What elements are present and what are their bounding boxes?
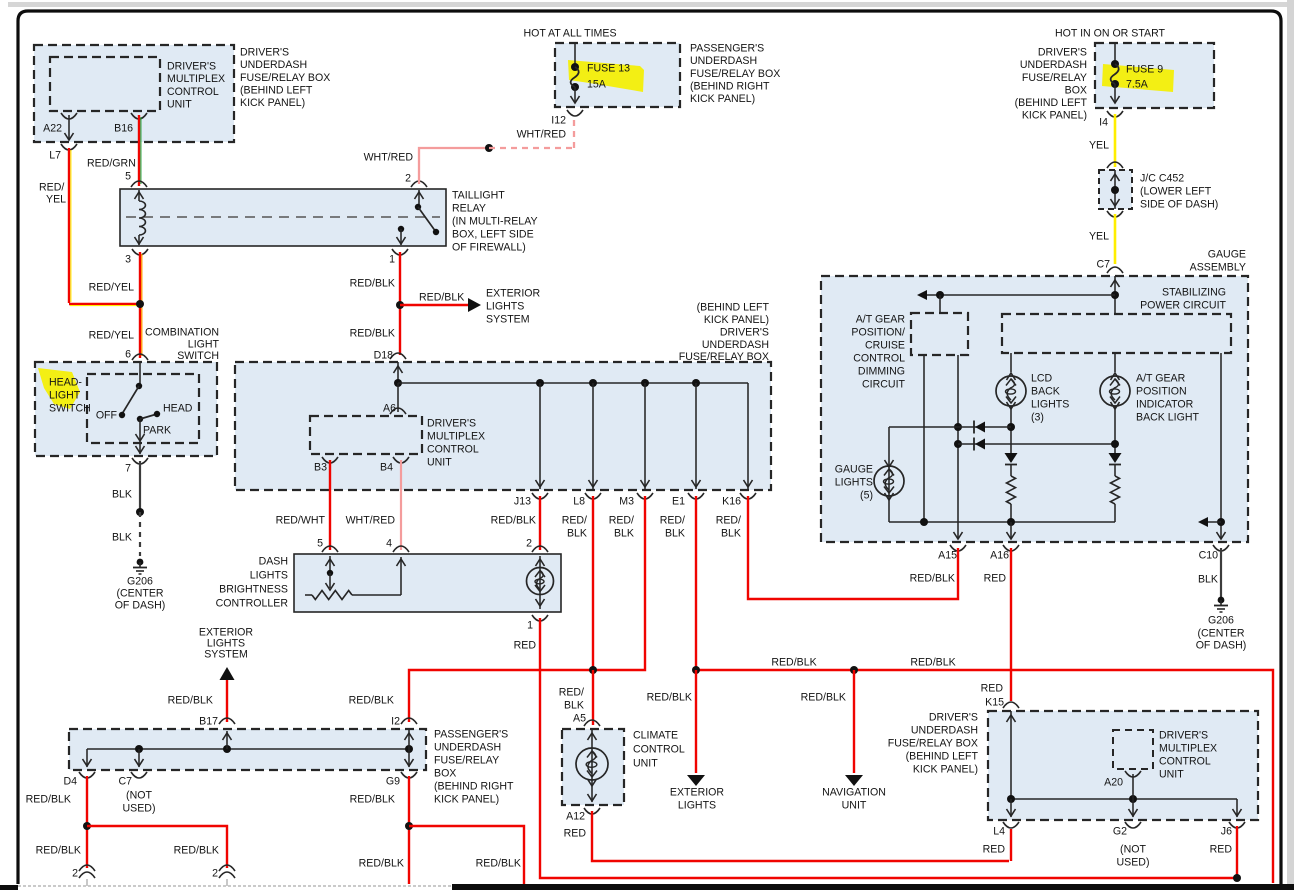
relay pin 2 connector arc xyxy=(411,181,427,187)
svg-text:HOT AT ALL TIMES: HOT AT ALL TIMES xyxy=(523,28,616,40)
wire bus to M3 with arrow xyxy=(644,383,646,489)
wire I2 through to bus xyxy=(408,729,410,749)
wire K15 into box with arrow xyxy=(1010,711,1012,799)
wire RED J6 down xyxy=(1236,826,1238,878)
svg-text:CIRCUIT: CIRCUIT xyxy=(862,379,905,391)
wire RED/BLK to exterior lights arrow xyxy=(695,670,697,773)
driver's underdash fuse/relay box (top right, dashed) xyxy=(1095,43,1214,108)
svg-text:15A: 15A xyxy=(587,79,607,91)
svg-text:(LOWER LEFT: (LOWER LEFT xyxy=(1140,186,1212,198)
connector L7 arc xyxy=(61,144,77,150)
svg-text:B4: B4 xyxy=(380,462,393,474)
wire RED/BLK down to A5 xyxy=(592,670,594,725)
svg-text:PARK: PARK xyxy=(143,425,171,437)
svg-text:SIDE OF DASH): SIDE OF DASH) xyxy=(1140,199,1218,211)
connector I12 arc xyxy=(567,110,583,116)
svg-text:UNIT: UNIT xyxy=(427,457,452,469)
svg-text:1: 1 xyxy=(527,620,533,632)
junction dot net A at L8/A5 xyxy=(589,666,597,674)
wire bus down to D4 xyxy=(86,749,88,767)
gray stubs below 2 connectors xyxy=(86,879,88,886)
passenger box internal bus xyxy=(87,748,409,750)
svg-text:DRIVER'S: DRIVER'S xyxy=(427,418,476,430)
stabilizing box right branch to C10 xyxy=(1220,353,1222,539)
svg-text:UNDERDASH: UNDERDASH xyxy=(702,339,769,351)
connector D18 arc xyxy=(390,353,406,359)
wire D18 into box with arrow xyxy=(397,362,399,383)
driver's multiplex control unit (center, dashed) xyxy=(310,416,422,454)
svg-text:WHT/RED: WHT/RED xyxy=(517,129,567,141)
svg-text:K16: K16 xyxy=(722,496,741,508)
svg-text:LIGHT: LIGHT xyxy=(49,390,81,402)
svg-text:RED/BLK: RED/BLK xyxy=(350,278,395,290)
driver's multiplex control unit (bottom right, dashed) xyxy=(1113,730,1153,769)
arrow exterior lights system up xyxy=(220,667,235,680)
A/T column resistor xyxy=(1114,465,1116,476)
svg-text:(BEHIND LEFT: (BEHIND LEFT xyxy=(240,84,313,96)
svg-text:(BEHIND LEFT: (BEHIND LEFT xyxy=(1015,97,1088,109)
svg-text:B17: B17 xyxy=(199,716,218,728)
yellow highlight FUSE 13 xyxy=(568,60,644,92)
wire RED/BLK B17 up to exterior lights system xyxy=(226,680,228,722)
A/T gear position indicator back light lamp column xyxy=(1114,353,1116,372)
connector C7 arc xyxy=(1107,267,1123,273)
svg-text:RED/GRN: RED/GRN xyxy=(87,158,136,170)
wire down into dimming circuit box xyxy=(939,295,941,313)
gauge bottom rail junction dots xyxy=(920,518,928,526)
svg-text:RED/BLK: RED/BLK xyxy=(647,692,692,704)
svg-text:UNDERDASH: UNDERDASH xyxy=(434,742,501,754)
controller wiper from pin 5 xyxy=(329,556,331,573)
svg-text:RED/: RED/ xyxy=(559,687,584,699)
svg-text:(BEHIND LEFT: (BEHIND LEFT xyxy=(906,751,979,763)
svg-text:K15: K15 xyxy=(985,697,1004,709)
svg-text:2: 2 xyxy=(72,868,78,880)
driver's underdash fuse/relay box (top left, dashed) xyxy=(34,45,234,142)
climate control lamp xyxy=(591,729,593,802)
svg-text:YEL: YEL xyxy=(1089,231,1109,243)
svg-text:L7: L7 xyxy=(49,150,61,162)
gauge bottom rail xyxy=(889,521,1115,523)
svg-text:COMBINATION: COMBINATION xyxy=(145,327,219,339)
svg-text:RED/: RED/ xyxy=(39,182,64,194)
wire bus up to B17 xyxy=(226,731,228,749)
svg-text:LIGHTS: LIGHTS xyxy=(835,477,873,489)
svg-text:BLK: BLK xyxy=(567,528,587,540)
svg-text:RED: RED xyxy=(983,844,1006,856)
svg-text:C10: C10 xyxy=(1199,550,1219,562)
gauge top-left rail with arrow xyxy=(922,294,1115,296)
svg-text:DRIVER'S: DRIVER'S xyxy=(929,712,978,724)
wire bus to L8 with arrow xyxy=(592,383,594,489)
svg-text:KICK PANEL): KICK PANEL) xyxy=(240,97,305,109)
svg-text:RED/BLK: RED/BLK xyxy=(174,845,219,857)
svg-text:RED/YEL: RED/YEL xyxy=(89,330,134,342)
svg-text:FUSE 13: FUSE 13 xyxy=(587,63,630,75)
svg-text:POWER CIRCUIT: POWER CIRCUIT xyxy=(1140,300,1226,312)
box internal bus xyxy=(1011,798,1237,800)
wire WHT/RED relay pin 2 to junction (solid) xyxy=(419,148,489,184)
svg-text:A15: A15 xyxy=(938,550,957,562)
wire bus to A6 xyxy=(397,383,399,412)
svg-text:DRIVER'S: DRIVER'S xyxy=(720,326,769,338)
svg-text:WHT/RED: WHT/RED xyxy=(364,152,414,164)
svg-text:CONTROL: CONTROL xyxy=(853,353,905,365)
svg-text:FUSE/RELAY BOX: FUSE/RELAY BOX xyxy=(888,738,978,750)
relay switch blade (open) xyxy=(418,207,436,232)
svg-text:2: 2 xyxy=(526,538,532,550)
wire BLK pin 7 down xyxy=(139,461,141,512)
svg-text:CONTROL: CONTROL xyxy=(167,86,219,98)
wire RED/BLK to navigation unit arrow xyxy=(853,670,855,773)
svg-text:C7: C7 xyxy=(118,776,132,788)
svg-text:POSITION/: POSITION/ xyxy=(851,327,905,339)
wire RED/YEL junction to pin 6 xyxy=(139,252,141,358)
wire RED A12 to L4 xyxy=(592,811,1009,861)
wire bus down to G2 xyxy=(1132,799,1134,817)
junction dot to dimming circuit xyxy=(936,291,944,299)
connector E1 arc xyxy=(688,493,704,499)
relay pin 5 connector arc xyxy=(131,181,147,187)
svg-text:CLIMATE: CLIMATE xyxy=(633,730,678,742)
connector L8 arc xyxy=(585,493,601,499)
svg-text:A12: A12 xyxy=(566,811,585,823)
svg-text:RED/BLK: RED/BLK xyxy=(350,328,395,340)
LCD column resistor xyxy=(1010,465,1012,476)
svg-text:YEL: YEL xyxy=(1089,140,1109,152)
A/T gear position/cruise control dimming circuit box xyxy=(911,313,968,355)
svg-text:UNIT: UNIT xyxy=(167,98,192,110)
svg-text:RED: RED xyxy=(1210,844,1233,856)
driver's underdash fuse/relay box (bottom right, dashed) xyxy=(988,711,1258,820)
wire RED/BLK branch to exterior lights system xyxy=(400,304,468,306)
svg-text:A/T GEAR: A/T GEAR xyxy=(856,314,906,326)
svg-text:RED/: RED/ xyxy=(562,515,587,527)
svg-text:DRIVER'S: DRIVER'S xyxy=(240,47,289,59)
svg-text:A22: A22 xyxy=(43,123,62,135)
page bottom thin gray line xyxy=(18,885,452,887)
connector J13 arc xyxy=(532,493,548,499)
svg-text:2: 2 xyxy=(405,173,411,185)
connector A12 arc xyxy=(584,808,600,814)
net B horizontal E1 to right edge xyxy=(696,670,1273,883)
connector L4 arc xyxy=(1003,822,1019,828)
svg-text:RED: RED xyxy=(564,828,587,840)
left-arrow stub on right branch xyxy=(1203,521,1221,523)
taillight relay box xyxy=(120,189,446,246)
svg-text:I2: I2 xyxy=(391,716,400,728)
connector C7 arc (not used) xyxy=(131,772,147,778)
svg-text:CRUISE: CRUISE xyxy=(865,340,905,352)
svg-text:A16: A16 xyxy=(990,550,1009,562)
svg-text:FUSE/RELAY: FUSE/RELAY xyxy=(1022,72,1087,84)
yellow highlight FUSE 9 xyxy=(1102,64,1174,92)
svg-text:A5: A5 xyxy=(573,713,586,725)
svg-text:(NOT: (NOT xyxy=(1120,844,1146,856)
svg-text:RED/BLK: RED/BLK xyxy=(801,692,846,704)
svg-text:C7: C7 xyxy=(1096,259,1110,271)
page top gray strip xyxy=(8,2,1294,7)
connector J6 arc xyxy=(1229,822,1245,828)
svg-text:KICK PANEL): KICK PANEL) xyxy=(690,93,755,105)
svg-text:DASH: DASH xyxy=(259,556,288,568)
svg-text:BACK: BACK xyxy=(1031,386,1060,398)
page bottom black bar xyxy=(452,884,1294,890)
relay internal dashed divider xyxy=(126,216,440,218)
arrow exterior lights xyxy=(687,775,705,786)
junction dot LCD column xyxy=(1007,423,1015,431)
svg-text:I4: I4 xyxy=(1099,117,1108,129)
svg-text:J/C C452: J/C C452 xyxy=(1140,173,1184,185)
junction dot RED/YEL xyxy=(136,300,144,308)
svg-text:UNDERDASH: UNDERDASH xyxy=(911,725,978,737)
svg-text:ASSEMBLY: ASSEMBLY xyxy=(1190,262,1246,274)
yellow highlight HEADLIGHT SWITCH xyxy=(38,368,80,409)
connector B17 arc xyxy=(219,718,235,724)
diode rail 2 (A/T lamp to A15 node) xyxy=(958,443,1115,445)
passenger's underdash fuse/relay box (top, dashed) xyxy=(555,43,680,107)
connector A15 arc xyxy=(950,545,966,551)
svg-text:D4: D4 xyxy=(63,776,77,788)
svg-text:G206: G206 xyxy=(1208,615,1234,627)
svg-text:BLK: BLK xyxy=(112,532,132,544)
wire RED/BLK E1 column down to net xyxy=(695,496,697,670)
wire A20 to bus xyxy=(1132,774,1134,799)
wire RED/BLK G9 down xyxy=(408,776,410,884)
connector G2 arc xyxy=(1125,822,1141,828)
svg-text:RED/BLK: RED/BLK xyxy=(910,573,955,585)
svg-text:CONTROLLER: CONTROLLER xyxy=(216,598,289,610)
wire RED/BLK M3 column down merging left xyxy=(594,496,645,670)
fuse F13 xyxy=(571,63,579,91)
LCD back lights lamp column xyxy=(1010,353,1012,372)
wire fuse 13 to I12 with arrow xyxy=(574,87,576,103)
svg-text:(5): (5) xyxy=(860,490,873,502)
svg-text:OF FIREWALL): OF FIREWALL) xyxy=(452,242,526,254)
svg-text:RED/BLK: RED/BLK xyxy=(359,858,404,870)
connector I2 arc xyxy=(401,718,417,724)
wire dimming box to A15 xyxy=(957,355,959,539)
connector G9 arc xyxy=(401,772,417,778)
svg-text:RELAY: RELAY xyxy=(452,203,486,215)
svg-text:STABILIZING: STABILIZING xyxy=(1162,287,1226,299)
svg-text:(3): (3) xyxy=(1031,412,1044,424)
wire bus to K16 with arrow xyxy=(747,383,749,489)
wire RED/BLK relay pin 1 down xyxy=(399,252,401,355)
connector D4 arc xyxy=(79,772,95,778)
svg-text:LIGHTS: LIGHTS xyxy=(678,800,716,812)
wire RED/BLK D4 down xyxy=(86,776,88,868)
wire BLK dashed to ground xyxy=(139,512,141,556)
wire WHT/RED junction to I12 (dashed) xyxy=(489,147,574,149)
connector K15 arc xyxy=(1003,702,1019,708)
gauge top junction dot xyxy=(1111,291,1119,299)
svg-text:UNIT: UNIT xyxy=(1159,769,1184,781)
arrow to exterior lights system xyxy=(468,298,481,312)
fuse F9 xyxy=(1111,60,1119,88)
svg-text:RED/YEL: RED/YEL xyxy=(89,282,134,294)
relay pin 1 connector arc xyxy=(392,249,408,255)
connector B4 arc xyxy=(393,457,409,463)
controller wire resistor to pin 4 xyxy=(400,557,402,595)
bus junction dots xyxy=(1007,795,1015,803)
switch PARK-HEAD blade xyxy=(137,416,143,422)
svg-text:RED: RED xyxy=(981,683,1004,695)
page bottom-left black corner piece xyxy=(0,885,18,890)
svg-text:L8: L8 xyxy=(573,496,585,508)
svg-text:RED/: RED/ xyxy=(609,515,634,527)
svg-text:DRIVER'S: DRIVER'S xyxy=(1159,730,1208,742)
svg-text:(BEHIND RIGHT: (BEHIND RIGHT xyxy=(690,80,770,92)
controller pin 5 arc xyxy=(322,546,338,552)
junction dot BLK xyxy=(136,508,144,516)
svg-text:KICK PANEL): KICK PANEL) xyxy=(704,314,769,326)
wire BLK C10 to ground xyxy=(1220,548,1222,599)
svg-text:M3: M3 xyxy=(619,496,634,508)
svg-text:6: 6 xyxy=(125,349,131,361)
svg-text:BOX: BOX xyxy=(1065,84,1087,96)
svg-text:(CENTER: (CENTER xyxy=(116,588,163,600)
svg-text:7.5A: 7.5A xyxy=(1126,79,1149,91)
wire WHT/RED B4 to pin 4 xyxy=(400,460,402,550)
svg-text:A/T GEAR: A/T GEAR xyxy=(1136,373,1186,385)
svg-text:HEAD: HEAD xyxy=(163,403,193,415)
svg-text:RED/: RED/ xyxy=(716,515,741,527)
connector B16 arc xyxy=(131,113,147,119)
connector K16 arc xyxy=(740,493,756,499)
svg-text:BLK: BLK xyxy=(564,700,584,712)
svg-text:POSITION: POSITION xyxy=(1136,386,1187,398)
svg-text:1: 1 xyxy=(389,254,395,266)
junction dot WHT/RED xyxy=(485,144,493,152)
svg-text:E1: E1 xyxy=(672,496,685,508)
svg-text:TAILLIGHT: TAILLIGHT xyxy=(452,190,505,202)
svg-text:FUSE/RELAY BOX: FUSE/RELAY BOX xyxy=(690,68,780,80)
J/C C452 internal wire xyxy=(1114,170,1116,209)
svg-text:HEAD-: HEAD- xyxy=(49,377,82,389)
bus junction dots xyxy=(536,379,544,387)
svg-text:LIGHTS: LIGHTS xyxy=(250,570,288,582)
svg-text:LIGHTS: LIGHTS xyxy=(1031,399,1069,411)
headlight switch inner box xyxy=(87,374,199,443)
svg-text:KICK PANEL): KICK PANEL) xyxy=(913,764,978,776)
svg-text:USED): USED) xyxy=(123,803,156,815)
ground G206 at C10 xyxy=(1214,597,1228,612)
wire RED/WHT B3 to pin 5 xyxy=(329,460,331,550)
svg-text:MULTIPLEX: MULTIPLEX xyxy=(167,73,225,85)
svg-text:OF DASH): OF DASH) xyxy=(115,600,166,612)
wire RED/BLK K16 to A15 xyxy=(748,496,958,599)
wire RED/YEL L7 down-left then to junction xyxy=(68,148,70,303)
gauge lights lamp column xyxy=(888,427,890,522)
svg-text:MULTIPLEX: MULTIPLEX xyxy=(427,431,485,443)
svg-text:DRIVER'S: DRIVER'S xyxy=(167,61,216,73)
wire RED controller pin1 to J6 xyxy=(540,618,1234,878)
svg-text:RED/BLK: RED/BLK xyxy=(26,794,71,806)
svg-text:L4: L4 xyxy=(993,826,1005,838)
combination light switch outer box xyxy=(35,362,217,456)
driver's multiplex control unit (top left, dashed) xyxy=(50,57,160,111)
svg-text:UNDERDASH: UNDERDASH xyxy=(1020,59,1087,71)
svg-text:WHT/RED: WHT/RED xyxy=(346,515,396,527)
svg-text:RED/BLK: RED/BLK xyxy=(476,858,521,870)
connector 2 double arc (left) xyxy=(79,865,95,871)
switch pin 7 connector arc xyxy=(132,458,148,464)
switch wire PARK to pin 7 xyxy=(139,419,141,454)
svg-text:LCD: LCD xyxy=(1031,373,1053,385)
connector B3 arc xyxy=(322,457,338,463)
svg-text:RED/BLK: RED/BLK xyxy=(491,515,536,527)
A/T column diode down xyxy=(1109,453,1122,463)
svg-text:KICK PANEL): KICK PANEL) xyxy=(434,794,499,806)
svg-text:G206: G206 xyxy=(127,576,153,588)
svg-text:FUSE/RELAY BOX: FUSE/RELAY BOX xyxy=(240,72,330,84)
passenger's underdash fuse/relay box (bottom, dashed) xyxy=(69,729,426,770)
svg-text:RED: RED xyxy=(514,640,537,652)
wire bus to E1 with arrow xyxy=(695,383,697,489)
connector A5 arc xyxy=(584,720,600,726)
connector I4 arc xyxy=(1107,111,1123,117)
svg-text:A20: A20 xyxy=(1104,777,1123,789)
svg-text:LIGHTS: LIGHTS xyxy=(486,301,524,313)
svg-text:BLK: BLK xyxy=(1198,574,1218,586)
svg-text:5: 5 xyxy=(125,171,131,183)
svg-text:3: 3 xyxy=(125,254,131,266)
svg-text:PASSENGER'S: PASSENGER'S xyxy=(434,729,508,741)
svg-text:7: 7 xyxy=(125,463,131,475)
svg-text:UNDERDASH: UNDERDASH xyxy=(690,55,757,67)
controller lamp at pin 2 xyxy=(539,556,541,609)
wire bus down to L4 xyxy=(1010,799,1012,817)
relay pin 3 connector arc xyxy=(132,249,148,255)
wire C7 into gauge box with arrow xyxy=(1114,276,1116,314)
wire RED A16 to K15 xyxy=(1010,548,1012,701)
svg-text:RED/WHT: RED/WHT xyxy=(276,515,326,527)
wire dimming box to bottom rail xyxy=(923,355,925,522)
junction dot J6 at bottom wire xyxy=(1233,874,1241,882)
svg-text:GAUGE: GAUGE xyxy=(835,464,873,476)
svg-text:A6: A6 xyxy=(383,403,396,415)
svg-text:EXTERIOR: EXTERIOR xyxy=(486,288,541,300)
svg-text:HOT IN ON OR START: HOT IN ON OR START xyxy=(1055,28,1166,40)
svg-text:OF DASH): OF DASH) xyxy=(1196,640,1247,652)
junction dot right branch xyxy=(1217,518,1225,526)
connector A20 arc xyxy=(1125,771,1141,777)
wire YEL J/C C452 to C7 xyxy=(1114,214,1117,264)
wire into fuse 9 xyxy=(1114,43,1116,64)
junction dot D4 branch xyxy=(83,822,91,830)
svg-text:GAUGE: GAUGE xyxy=(1208,249,1246,261)
svg-text:5: 5 xyxy=(317,538,323,550)
connector C10 arc xyxy=(1213,545,1229,551)
svg-text:4: 4 xyxy=(386,538,392,550)
internal bus horizontal xyxy=(398,382,748,384)
svg-text:UNIT: UNIT xyxy=(633,758,658,770)
svg-text:RED/BLK: RED/BLK xyxy=(350,794,395,806)
driver's underdash fuse/relay box (center, dashed) xyxy=(235,362,771,490)
svg-text:BRIGHTNESS: BRIGHTNESS xyxy=(219,584,288,596)
svg-text:UNDERDASH: UNDERDASH xyxy=(240,59,307,71)
wire bus down to G9 xyxy=(408,749,410,767)
svg-text:BACK LIGHT: BACK LIGHT xyxy=(1136,412,1200,424)
bus junction dot at D18 column xyxy=(394,379,402,387)
svg-text:RED/BLK: RED/BLK xyxy=(36,845,81,857)
relay switch pin 1 contact xyxy=(398,226,404,232)
relay coil with arrows xyxy=(138,190,140,201)
svg-text:RED: RED xyxy=(984,573,1007,585)
relay switch contact from pin 2 xyxy=(418,190,420,206)
connector A6 arc xyxy=(390,408,406,414)
